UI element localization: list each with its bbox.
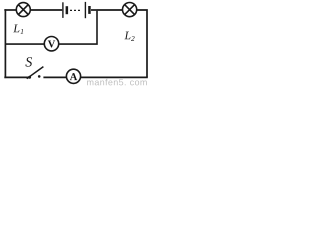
node A junction wire to L2 [97, 9, 123, 11]
wire L2 to top-right corner and right side down [137, 10, 147, 77]
ammeter U2 [66, 69, 80, 83]
wire switch to ammeter [43, 76, 66, 78]
wire battery to node A [91, 9, 97, 11]
battery B1 [63, 2, 91, 18]
wire left side vertical [4, 9, 6, 78]
wire bottom-left to switch [4, 76, 29, 78]
wire top-left segment [4, 9, 16, 11]
lamp L1 [16, 3, 30, 17]
label S [25, 57, 32, 66]
wire voltmeter branch left [5, 43, 44, 45]
switch S [27, 67, 44, 79]
wire L1 to battery [30, 9, 62, 11]
wire ammeter to bottom-right corner [81, 76, 148, 78]
voltmeter U1 [44, 37, 58, 51]
wire voltmeter branch right up to node A [59, 11, 97, 44]
watermark [87, 79, 147, 86]
label L1 [13, 24, 19, 32]
lamp L2 [123, 3, 137, 17]
label L2 [124, 32, 130, 40]
